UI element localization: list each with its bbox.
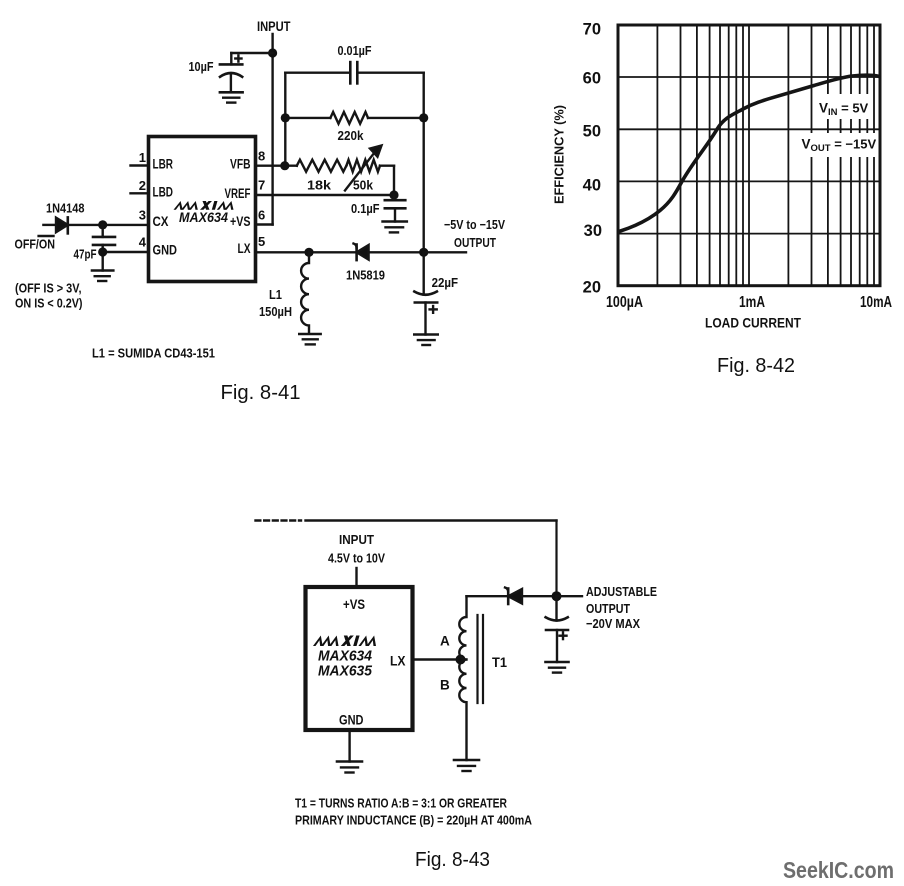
wire output stub (424, 251, 466, 253)
svg-text:1mA: 1mA (739, 294, 765, 311)
ground symbol below 10uF (220, 91, 243, 94)
svg-text:LOAD CURRENT: LOAD CURRENT (705, 316, 802, 331)
svg-text:40: 40 (583, 177, 601, 195)
svg-text:PRIMARY INDUCTANCE (B) = 220µH: PRIMARY INDUCTANCE (B) = 220µH AT 400mA (295, 813, 532, 828)
svg-text:30: 30 (584, 222, 602, 240)
svg-text:LX: LX (238, 241, 251, 256)
wire coil top to diode (467, 595, 509, 597)
IC U2 MAX634/MAX635 body (306, 587, 413, 730)
wire node to capacitor C47 (101, 225, 103, 237)
overline over ON (39, 235, 54, 237)
wire D2 to output node (369, 251, 424, 253)
svg-text:MAX634: MAX634 (179, 209, 228, 225)
svg-text:SeekIC.com: SeekIC.com (783, 857, 894, 883)
svg-text:L1 = SUMIDA CD43-151: L1 = SUMIDA CD43-151 (92, 347, 215, 361)
pin 2 stub (131, 192, 149, 194)
svg-text:VREF: VREF (225, 186, 251, 201)
wire 0.1uF to ground (394, 208, 396, 221)
capacitor C 22uF straight plate (415, 301, 437, 304)
svg-text:20: 20 (583, 279, 601, 297)
svg-text:10mA: 10mA (860, 294, 892, 311)
svg-text:LBR: LBR (153, 157, 174, 172)
svg-text:150µH: 150µH (259, 304, 292, 319)
ground symbol below C out (546, 661, 569, 664)
label gap VIN (814, 94, 872, 119)
MAXIM logo 2 (313, 636, 379, 647)
wire C10 to ground (230, 75, 232, 93)
capacitor C out straight plate (546, 629, 568, 632)
capacitor C 0.1uF plates (393, 195, 395, 200)
svg-text:Fig. 8-43: Fig. 8-43 (415, 849, 490, 871)
diode D3 cathode bar (505, 588, 508, 593)
capacitor C 22uF curved plate (423, 252, 425, 294)
svg-text:50k: 50k (353, 178, 374, 193)
svg-text:LX: LX (390, 654, 406, 669)
node INPUT junction dot (268, 48, 277, 57)
capacitor C 0.01uF plates (349, 62, 352, 83)
node output dot (419, 248, 428, 257)
svg-text:Fig. 8-41: Fig. 8-41 (221, 382, 301, 404)
ground symbol below L1 (299, 333, 320, 336)
svg-text:OUTPUT: OUTPUT (454, 235, 496, 250)
svg-text:47pF: 47pF (74, 247, 97, 262)
wire VFB pin8 (256, 164, 297, 166)
svg-text:MAX635: MAX635 (318, 663, 373, 680)
svg-text:OUTPUT: OUTPUT (586, 601, 630, 616)
svg-text:T1: T1 (492, 654, 507, 670)
wire feed right vertical (555, 521, 557, 597)
capacitor C out curved plate (555, 596, 557, 620)
svg-text:6: 6 (258, 208, 265, 223)
grid vertical lines decade 1 (657, 25, 749, 286)
resistor R 220k zigzag (330, 112, 368, 124)
wire output stub (557, 595, 583, 597)
op-amp/IC U1 MAX634 body (149, 137, 256, 282)
node VFB dot (280, 161, 289, 170)
diode D1 1N4148 triangle (56, 218, 68, 233)
svg-text:22µF: 22µF (432, 275, 459, 290)
svg-text:1N4148: 1N4148 (46, 201, 85, 216)
ground symbol below winding (454, 759, 479, 762)
efficiency curve (619, 75, 879, 231)
node LX dot (304, 248, 313, 257)
svg-text:(OFF IS > 3V,: (OFF IS > 3V, (15, 282, 82, 296)
wire INPUT vertical (271, 34, 273, 225)
wire top loop left segment (285, 71, 350, 73)
svg-text:+VS: +VS (230, 214, 251, 229)
wire CX pin3 to node (103, 224, 149, 226)
potentiometer arrow (345, 153, 375, 191)
grid vertical lines decade 2 (788, 25, 874, 286)
svg-text:0.01µF: 0.01µF (338, 43, 372, 58)
svg-text:VIN = 5V: VIN = 5V (819, 101, 869, 118)
svg-text:100µA: 100µA (606, 294, 643, 311)
inductor L1 coil (301, 252, 309, 333)
svg-text:GND: GND (153, 243, 178, 258)
diode D2 1N5819 triangle (357, 245, 369, 260)
capacitor C 10uF plate curved (220, 73, 242, 77)
wire LX pin5 (256, 251, 357, 253)
wire +VS stub (355, 568, 357, 587)
capacitor C out plus sign (560, 635, 567, 637)
svg-text:L1: L1 (269, 287, 282, 302)
wire loop right vertical (423, 73, 425, 253)
capacitor C 10uF plate straight (220, 63, 242, 66)
wire top loop right segment (357, 71, 423, 73)
node VREF dot (389, 190, 398, 199)
wire D1 to node CX (68, 224, 103, 226)
capacitor C 47pF plate top (93, 236, 115, 239)
svg-text:A: A (440, 634, 450, 649)
ground symbol below 0.1uF (383, 220, 407, 223)
svg-text:B: B (440, 678, 450, 693)
wire dashed input feed (256, 519, 302, 521)
node tap dot (456, 655, 466, 665)
wire 50k to VREF node (380, 164, 394, 166)
svg-text:1: 1 (139, 150, 146, 165)
grid horizontal lines (618, 77, 880, 234)
plot border (618, 25, 880, 286)
resistor R 18k zigzag (297, 160, 347, 172)
wire C out to ground (556, 630, 558, 662)
svg-text:CX: CX (153, 214, 169, 229)
wire LX to transformer tap (413, 658, 467, 660)
svg-text:−5V to −15V: −5V to −15V (444, 217, 505, 232)
node output dot (552, 591, 562, 601)
capacitor C 22uF plus sign (430, 308, 437, 310)
svg-text:4: 4 (139, 235, 147, 250)
diode D3 triangle (508, 589, 522, 604)
wire GND pin4 to node (103, 251, 149, 253)
svg-text:220k: 220k (338, 128, 365, 143)
svg-text:GND: GND (339, 713, 364, 728)
ground symbol below 22uF (414, 333, 437, 336)
svg-text:3: 3 (139, 208, 146, 223)
capacitor C 47pF plate bottom (93, 244, 115, 247)
ground symbol below GND pin (348, 730, 350, 762)
svg-text:18k: 18k (307, 178, 332, 193)
diode D1 cathode bar (67, 217, 70, 233)
label gap VOUT (797, 133, 878, 157)
svg-text:8: 8 (258, 149, 265, 164)
svg-text:OFF/ON: OFF/ON (15, 237, 56, 252)
wire input feed top (306, 519, 557, 521)
svg-text:50: 50 (583, 123, 601, 141)
svg-text:4.5V to 10V: 4.5V to 10V (328, 551, 385, 566)
svg-text:LBD: LBD (153, 184, 174, 199)
diode D1 1N4148 anode wire (43, 224, 56, 226)
svg-text:70: 70 (583, 21, 601, 39)
svg-text:EFFICIENCY (%): EFFICIENCY (%) (552, 105, 567, 204)
svg-text:VFB: VFB (230, 157, 251, 172)
node 220k right dot (419, 113, 428, 122)
svg-text:0.1µF: 0.1µF (351, 201, 380, 216)
resistor R 220k row wires (285, 117, 330, 119)
svg-text:5: 5 (258, 234, 265, 249)
wire D3 to output node (522, 595, 557, 597)
wire input node to C10 (231, 52, 272, 54)
svg-text:INPUT: INPUT (339, 532, 374, 547)
ground symbol below 47pF (92, 269, 113, 272)
svg-text:INPUT: INPUT (257, 19, 291, 34)
pin 1 stub (131, 164, 149, 166)
svg-text:2: 2 (139, 178, 146, 193)
svg-text:Fig. 8-42: Fig. 8-42 (717, 355, 795, 377)
diode D2 1N5819 cathode bar (354, 244, 357, 249)
wire loop left vertical (284, 73, 286, 166)
capacitor C 10uF plus sign (235, 57, 241, 59)
svg-text:−20V MAX: −20V MAX (586, 616, 640, 631)
svg-text:T1 = TURNS RATIO A:B = 3:1 OR: T1 = TURNS RATIO A:B = 3:1 OR GREATER (295, 796, 507, 811)
node CX junction dot (98, 220, 107, 229)
MAXIM logo (174, 201, 236, 210)
wire C47 to GND node (101, 245, 103, 271)
svg-text:7: 7 (258, 178, 265, 193)
node 220k left dot (281, 113, 290, 122)
svg-text:1N5819: 1N5819 (346, 268, 385, 283)
transformer T1 core (476, 615, 478, 703)
svg-text:60: 60 (583, 70, 601, 88)
svg-text:ADJUSTABLE: ADJUSTABLE (586, 584, 657, 599)
svg-text:+VS: +VS (343, 597, 365, 612)
wire 22uF to ground (424, 303, 426, 335)
wire +VS pin6 horizontal (256, 223, 273, 225)
node GND junction dot (98, 247, 107, 256)
wire VREF pin7 (256, 194, 395, 196)
transformer T1 winding (459, 596, 466, 760)
svg-text:10µF: 10µF (189, 59, 214, 74)
potentiometer R 50k zigzag (346, 160, 380, 172)
svg-text:ON IS < 0.2V): ON IS < 0.2V) (15, 297, 83, 311)
